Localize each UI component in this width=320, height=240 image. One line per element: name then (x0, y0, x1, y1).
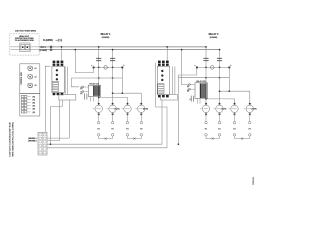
svg-text:RELAY 2: RELAY 2 (209, 33, 220, 36)
svg-text:A1: A1 (35, 76, 37, 79)
svg-text:(WH/RD) 2: (WH/RD) 2 (28, 141, 36, 143)
svg-text:H1: H1 (97, 129, 99, 131)
svg-text:a: a (195, 65, 196, 67)
svg-text:(W): (W) (33, 103, 36, 105)
svg-text:(W): (W) (33, 96, 36, 98)
svg-text:a: a (91, 65, 92, 67)
svg-text:b: b (231, 65, 232, 67)
svg-text:(W): (W) (33, 109, 36, 111)
svg-text:H1: H1 (205, 129, 207, 131)
svg-text:(BL/W): (BL/W) (221, 109, 226, 111)
svg-text:(WH/BK) 1: (WH/BK) 1 (28, 138, 36, 140)
svg-text:(LO/W): (LO/W) (40, 50, 48, 52)
svg-text:(BL/W): (BL/W) (114, 109, 119, 111)
svg-text:A1: A1 (35, 67, 37, 70)
svg-text:H1: H1 (249, 129, 251, 131)
svg-text:WIRE: MAIN/CONTROL/COLL (8-WIR: WIRE: MAIN/CONTROL/COLL (8-WIRE) (11, 122, 14, 157)
svg-text:H1: H1 (233, 129, 235, 131)
svg-text:RELAY COIL: RELAY COIL (196, 80, 206, 83)
svg-text:(BL/W): (BL/W) (143, 109, 148, 111)
svg-text:22004235: 22004235 (253, 177, 255, 185)
svg-text:H1: H1 (111, 129, 113, 131)
svg-text:(ON/W): (ON/W) (102, 37, 110, 39)
svg-text:240 VOLT 50/60 (WH): 240 VOLT 50/60 (WH) (15, 29, 36, 32)
svg-text:(W): (W) (33, 106, 36, 108)
svg-text:(W): (W) (33, 99, 36, 101)
svg-text:D-(HI/W): D-(HI/W) (43, 39, 53, 42)
svg-text:RELAY COIL: RELAY COIL (90, 82, 100, 85)
svg-text:CONTROL UNIT: CONTROL UNIT (21, 72, 23, 85)
svg-text:RELAY 1: RELAY 1 (101, 33, 112, 36)
svg-text:4-119 VOLTS (COUPLING) LIGHT B: 4-119 VOLTS (COUPLING) LIGHT BLUE (9, 122, 11, 157)
svg-text:(W): (W) (33, 112, 36, 114)
svg-text:H1: H1 (140, 129, 142, 131)
svg-text:(BL/W): (BL/W) (252, 109, 257, 111)
svg-text:H1: H1 (126, 129, 128, 131)
svg-text:H1: H1 (218, 129, 220, 131)
svg-text:TO ALTERNATE SIDE: TO ALTERNATE SIDE (15, 39, 35, 42)
svg-text:b: b (124, 65, 125, 67)
svg-text:(ON/W): (ON/W) (210, 37, 218, 39)
svg-text:A1: A1 (35, 84, 37, 87)
